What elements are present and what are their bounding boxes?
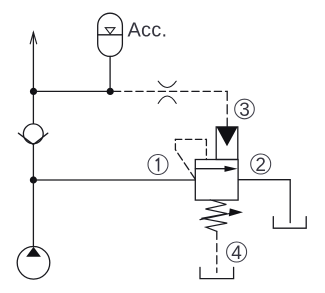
wire: vertical between check valve and lower junction — [32, 145, 34, 181]
node: junction dot lower left (x33,y180) — [30, 176, 37, 183]
port 1 label circle — [148, 155, 168, 175]
relief valve V1: internal flow arrow shaft — [195, 168, 227, 170]
wire: main pressure line y=180 to relief valve port 1 — [33, 179, 195, 181]
tank symbol (outlet, right) — [273, 217, 306, 229]
wire: accumulator drop line — [109, 56, 111, 91]
pilot wire: dashed vertical left of valve — [174, 139, 176, 149]
pump: circle — [17, 246, 50, 279]
wire: outlet line y=180 from relief valve port 2 — [238, 179, 290, 181]
wire: vertical to pump — [32, 180, 34, 247]
arrow: flow direction to system (top left) — [30, 32, 37, 44]
pump: flow triangle (filled, pointing up) — [26, 247, 41, 257]
relief valve V1: spring (zigzag) — [201, 200, 227, 232]
relief valve V1: pilot poppet triangle (filled) — [217, 127, 238, 146]
port 4 label circle — [227, 242, 247, 262]
relief valve V1: adjustment arrow shaft — [200, 213, 233, 220]
node: junction dot left (x33,y91) — [30, 88, 37, 95]
node: junction dot accumulator branch (x110,y91) — [107, 88, 114, 95]
tank symbol (drain, bottom) — [200, 267, 234, 278]
relief valve V1: pilot cap rectangle — [216, 127, 238, 160]
svg-text:4: 4 — [231, 243, 242, 264]
wire: vertical drop to right tank — [289, 180, 291, 223]
port 3 label circle — [235, 99, 255, 119]
accumulator Acc body (capsule) — [98, 13, 123, 56]
svg-text:3: 3 — [239, 100, 250, 121]
port 2 label circle — [251, 154, 271, 174]
pilot wire: dashed drain below spring to tank — [216, 231, 218, 272]
pilot wire: dashed vertical into valve top — [205, 139, 207, 159]
wire: horizontal line y=91 from left junction to accumulator branch — [34, 90, 111, 92]
check valve: circle (ball) — [23, 124, 43, 144]
accumulator Acc gas triangle — [105, 28, 115, 34]
wire: left vertical line (system branch) — [32, 33, 34, 124]
relief valve V1: main body box — [195, 160, 238, 201]
svg-text:2: 2 — [255, 155, 266, 176]
relief valve V1: internal flow arrow head — [225, 166, 238, 172]
pilot wire: dashed diagonal from port1 corner — [176, 150, 196, 180]
svg-text:Acc.: Acc. — [128, 19, 168, 41]
check valve: seat V — [18, 133, 47, 144]
orifice: bottom arc — [158, 96, 176, 103]
pilot wire: dashed vertical down to vent port 3 — [226, 91, 228, 126]
pilot wire: dashed horizontal above valve — [175, 138, 206, 140]
relief valve V1: adjustment arrow head — [229, 208, 243, 216]
accumulator Acc separator line — [98, 34, 123, 36]
pilot wire: dashed horizontal y=91 to vent corner — [114, 90, 228, 92]
orifice: top arc — [158, 81, 176, 87]
